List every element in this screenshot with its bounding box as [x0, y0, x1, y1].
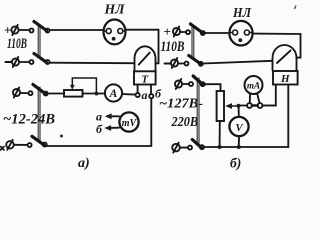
svg-text:а): а): [78, 156, 90, 171]
svg-text:НЛ: НЛ: [232, 5, 252, 20]
svg-text:110В: 110В: [161, 39, 185, 55]
svg-text:б: б: [96, 122, 103, 136]
svg-text:б): б): [230, 155, 241, 170]
svg-text:НЛ: НЛ: [103, 2, 125, 17]
svg-text:mV: mV: [122, 118, 138, 129]
svg-text:mА: mА: [247, 81, 260, 91]
svg-text:~127В-: ~127В-: [159, 97, 203, 112]
svg-text:А: А: [109, 88, 118, 100]
svg-text:+: +: [164, 24, 171, 39]
svg-text:110В: 110В: [7, 36, 27, 52]
svg-text:~12-24В: ~12-24В: [3, 112, 55, 128]
svg-text:Н: Н: [280, 73, 290, 85]
svg-text:220В: 220В: [171, 115, 198, 130]
svg-text:а: а: [142, 88, 148, 102]
